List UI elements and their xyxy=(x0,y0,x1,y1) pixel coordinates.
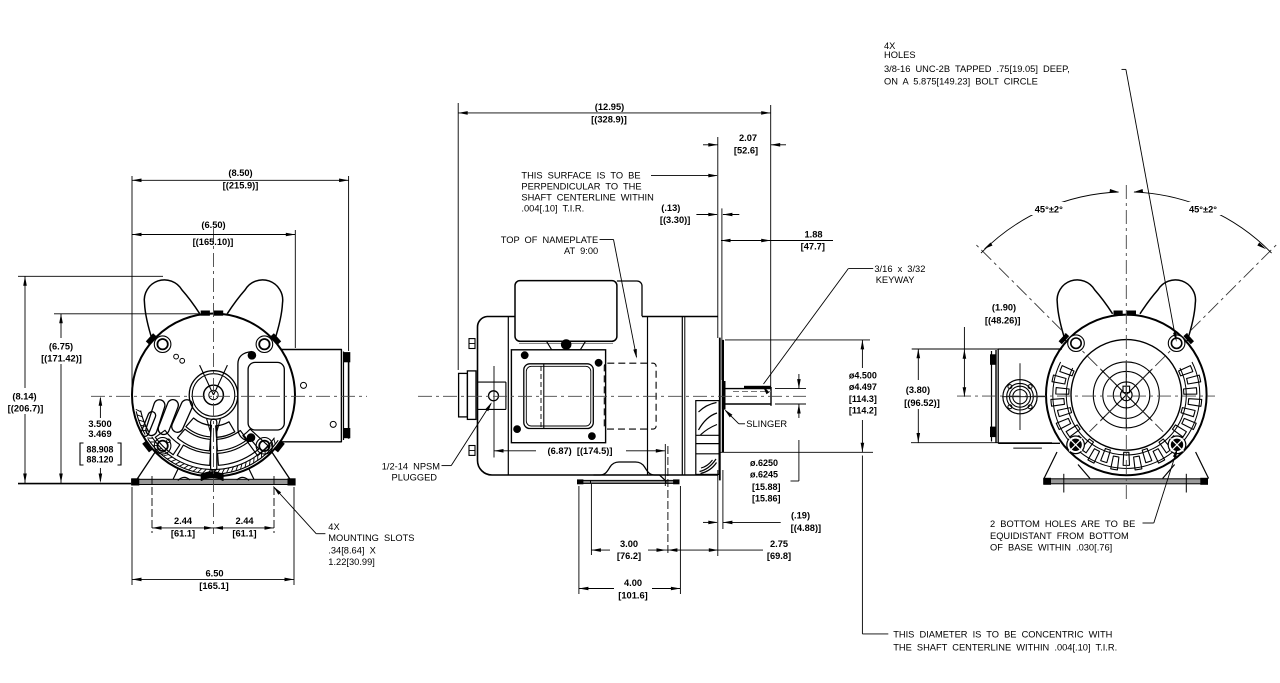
extension lines 4.00 xyxy=(578,486,580,594)
dim 2.44 right xyxy=(214,527,275,529)
svg-text:3.00: 3.00 xyxy=(620,539,638,549)
front view bolt lower-right xyxy=(256,438,273,455)
rear view conduit box lid xyxy=(991,351,993,442)
dim 1.88 xyxy=(721,240,833,242)
side view slinger xyxy=(722,382,725,410)
side view conduit box rear xyxy=(617,281,642,316)
leader THIS DIAMETER xyxy=(861,456,863,634)
svg-text:[(206.7)]: [(206.7)] xyxy=(8,404,44,414)
rear view bolt lower-left xyxy=(1067,436,1085,454)
front view conduit box holes xyxy=(301,382,307,388)
svg-text:1.88: 1.88 xyxy=(804,229,822,239)
leader 2 BOTTOM HOLES xyxy=(1143,522,1154,524)
dim (6.87) xyxy=(494,450,536,452)
svg-text:(1.90): (1.90) xyxy=(992,303,1016,313)
svg-text:[15.88]: [15.88] xyxy=(752,482,781,492)
rear view right foot xyxy=(1196,452,1209,479)
side view conduit box neck xyxy=(547,341,586,350)
leader keyway xyxy=(848,268,873,270)
svg-text:SLINGER: SLINGER xyxy=(746,419,787,429)
side view conduit box lid xyxy=(515,281,617,342)
svg-text:[(171.42)]: [(171.42)] xyxy=(41,354,82,364)
side view drain plug xyxy=(489,391,499,401)
extension lines 6.50 bottom xyxy=(131,487,133,585)
front view horizontal centerline xyxy=(91,395,367,397)
svg-text:MOUNTING SLOTS: MOUNTING SLOTS xyxy=(328,533,414,543)
svg-text:[52.6]: [52.6] xyxy=(734,146,758,156)
side view plug boss xyxy=(478,381,506,383)
svg-text:[(4.88)]: [(4.88)] xyxy=(791,523,821,533)
rear view boss centerline xyxy=(1019,363,1021,430)
rear view bolt circle diagonals xyxy=(976,245,1115,384)
side view nameplate window inner xyxy=(526,366,591,426)
extension line mounting face xyxy=(717,137,719,338)
front view conduit box side xyxy=(280,350,341,442)
svg-text:[61.1]: [61.1] xyxy=(232,528,256,538)
rear view conduit box xyxy=(998,349,1062,443)
rear view bolt upper-right xyxy=(1168,335,1185,352)
front view junction box plinth xyxy=(238,352,252,442)
front view vent arc slots xyxy=(216,422,235,438)
rear view box boss xyxy=(1003,380,1037,414)
front view top clamp tabs xyxy=(201,311,209,315)
svg-text:2 BOTTOM HOLES ARE TO BE: 2 BOTTOM HOLES ARE TO BE xyxy=(990,519,1135,529)
svg-text:(.19): (.19) xyxy=(791,511,810,521)
front view bolt upper-left xyxy=(154,336,171,353)
svg-text:4.00: 4.00 xyxy=(624,578,642,588)
side view rear foot xyxy=(594,462,666,481)
svg-text:45°±2°: 45°±2° xyxy=(1035,205,1063,215)
extension line shaft end xyxy=(770,105,772,386)
svg-text:[(215.9)]: [(215.9)] xyxy=(223,181,259,191)
side view hub flange xyxy=(467,371,476,420)
svg-text:[101.6]: [101.6] xyxy=(618,591,647,601)
svg-text:1/2-14 NPSM: 1/2-14 NPSM xyxy=(382,462,440,472)
front view right foot xyxy=(272,452,291,481)
svg-text:PLUGGED: PLUGGED xyxy=(392,473,438,483)
svg-text:KEYWAY: KEYWAY xyxy=(876,275,915,285)
svg-text:ø.6245: ø.6245 xyxy=(750,470,778,480)
leader mounting slots xyxy=(273,487,316,534)
front view left lifting ear xyxy=(144,280,200,341)
svg-text:TOP OF NAMEPLATE: TOP OF NAMEPLATE xyxy=(501,235,598,245)
svg-text:[(48.26)]: [(48.26)] xyxy=(985,316,1021,326)
front view hub key marks xyxy=(200,365,214,395)
side view frame joint xyxy=(647,317,649,476)
side view end-bell seam xyxy=(507,317,509,476)
rear view vertical centerline xyxy=(1125,185,1127,500)
front view bearing hub circles xyxy=(189,371,238,420)
dim (3.80) xyxy=(917,349,919,380)
svg-text:[114.2]: [114.2] xyxy=(849,406,877,416)
side view nameplate frame xyxy=(511,350,605,443)
dim (.19) xyxy=(703,521,717,523)
svg-text:[165.1]: [165.1] xyxy=(199,581,228,591)
svg-text:3/8-16 UNC-2B TAPPED .75[19.05: 3/8-16 UNC-2B TAPPED .75[19.05] DEEP, xyxy=(884,64,1070,74)
rear view top clamp tabs xyxy=(1114,311,1122,315)
dim shaft diameter xyxy=(798,374,800,389)
side view nameplate hinge line xyxy=(543,365,545,429)
rear view bolt lower-right xyxy=(1168,436,1186,454)
extension line box bottom xyxy=(911,442,1052,444)
svg-text:ON A 5.875[149.23] BOLT CIRCLE: ON A 5.875[149.23] BOLT CIRCLE xyxy=(884,77,1038,87)
side view louver box xyxy=(696,401,719,475)
rear view right lifting ear xyxy=(1140,280,1196,341)
svg-text:ø4.500: ø4.500 xyxy=(849,371,877,381)
rear view fan cover circle xyxy=(1071,340,1182,451)
side view louvers xyxy=(696,434,719,436)
extension line 6.50 right xyxy=(294,230,296,348)
dim 2.07 xyxy=(703,144,718,146)
side view foot base plate xyxy=(578,480,680,483)
svg-text:SHAFT CENTERLINE WITHIN: SHAFT CENTERLINE WITHIN xyxy=(521,193,653,203)
extension line box top xyxy=(912,348,1050,350)
rear view bolt upper-left xyxy=(1068,335,1085,352)
dim 3.00 and 2.75 xyxy=(591,549,610,551)
extension lines 8.50 xyxy=(131,176,133,390)
label 45 left xyxy=(1030,202,1068,215)
svg-text:[114.3]: [114.3] xyxy=(849,394,877,404)
svg-text:ø4.497: ø4.497 xyxy=(849,382,877,392)
svg-text:ø.6250: ø.6250 xyxy=(750,458,778,468)
front view bolt upper-right xyxy=(256,336,273,353)
rear view base hole marks xyxy=(1063,474,1065,493)
front view junction box window xyxy=(248,362,284,430)
svg-text:3.469: 3.469 xyxy=(88,429,111,439)
extension lines 3.00 xyxy=(590,484,592,555)
dim (6.50) xyxy=(132,234,295,236)
front view left foot xyxy=(136,452,155,481)
front view vent slats upper-left group xyxy=(140,411,157,438)
front view conduit box lid xyxy=(343,352,345,441)
side view nameplate frame screws xyxy=(521,352,528,359)
side view hidden nameplate dashed box xyxy=(604,363,656,429)
extension line slinger plane xyxy=(721,208,723,380)
svg-text:(6.75): (6.75) xyxy=(49,342,73,352)
svg-text:6.50: 6.50 xyxy=(205,569,223,579)
svg-text:[15.86]: [15.86] xyxy=(752,494,781,504)
dim (6.75) xyxy=(60,314,62,338)
extension lines shaft dia xyxy=(775,388,806,390)
svg-text:PERPENDICULAR TO THE: PERPENDICULAR TO THE xyxy=(521,182,641,192)
front view base plate xyxy=(132,479,295,484)
angular dim arc 45 xyxy=(981,192,1119,253)
front view drain holes xyxy=(174,354,179,359)
rear view left foot xyxy=(1044,452,1057,479)
extension lines 4.500 xyxy=(725,339,870,341)
svg-text:88.120: 88.120 xyxy=(87,455,114,465)
front view shaft circle xyxy=(204,385,224,405)
svg-text:2.44: 2.44 xyxy=(235,516,254,526)
svg-text:EQUIDISTANT FROM BOTTOM: EQUIDISTANT FROM BOTTOM xyxy=(990,531,1129,541)
front view junction box screws xyxy=(248,352,256,360)
svg-text:AT 9:00: AT 9:00 xyxy=(564,246,598,256)
side view fan cover band xyxy=(681,317,683,476)
front view rim vent ring xyxy=(152,437,275,470)
side view conduit box bolt xyxy=(561,340,571,350)
leader 4X HOLES xyxy=(1122,68,1126,70)
front view motor body circle xyxy=(132,314,295,477)
dim 3.500 shaft height xyxy=(99,398,101,418)
extension line 12.95 left xyxy=(457,103,459,370)
dim (8.14) xyxy=(24,276,26,388)
side view nameplate window outer xyxy=(524,364,594,429)
slot centerline dashes xyxy=(151,476,153,533)
dim 4.00 xyxy=(579,588,614,590)
svg-text:2.75: 2.75 xyxy=(770,539,788,549)
svg-text:(8.50): (8.50) xyxy=(228,168,252,178)
front view right lifting ear xyxy=(227,280,283,341)
rear view base plate xyxy=(1044,479,1208,484)
front view rib webs xyxy=(207,419,211,432)
dim 4.500 xyxy=(861,340,863,368)
rear view box underline xyxy=(1013,447,1042,449)
svg-text:.004[.10] T.I.R.: .004[.10] T.I.R. xyxy=(521,204,584,214)
front view center rib slot xyxy=(211,419,217,471)
svg-text:HOLES: HOLES xyxy=(884,50,916,60)
side view shaft centerline xyxy=(418,395,806,397)
svg-text:[(165.10)]: [(165.10)] xyxy=(193,237,234,247)
rear view motor body circle xyxy=(1046,315,1207,476)
svg-text:THIS DIAMETER IS TO BE CONCENT: THIS DIAMETER IS TO BE CONCENTRIC WITH xyxy=(893,630,1112,640)
svg-text:[(96.52)]: [(96.52)] xyxy=(904,398,940,408)
svg-text:[(3.30)]: [(3.30)] xyxy=(660,215,690,225)
leader THIS SURFACE xyxy=(651,175,717,177)
side view face bolts xyxy=(469,339,475,349)
rear view cross marks xyxy=(1101,369,1152,420)
leader TOP OF NAMEPLATE xyxy=(600,239,614,241)
ground line xyxy=(18,483,131,485)
svg-text:[69.8]: [69.8] xyxy=(767,551,791,561)
dim (8.50) xyxy=(132,179,349,181)
svg-text:(12.95): (12.95) xyxy=(595,102,624,112)
svg-text:3.500: 3.500 xyxy=(88,419,111,429)
svg-text:.34[8.64] X: .34[8.64] X xyxy=(328,545,375,555)
svg-text:2.44: 2.44 xyxy=(174,516,193,526)
front view center foot web xyxy=(201,472,223,481)
side view keyway xyxy=(744,386,770,388)
rear view horizontal centerline xyxy=(957,395,1215,397)
svg-text:2.07: 2.07 xyxy=(739,133,757,143)
svg-text:1.22[30.99]: 1.22[30.99] xyxy=(328,557,375,567)
side view bearing cap xyxy=(459,373,468,417)
side view plug centerline xyxy=(493,366,495,458)
svg-text:(.13): (.13) xyxy=(661,203,680,213)
svg-text:4X: 4X xyxy=(328,522,339,532)
svg-text:(6.87) [(174.5)]: (6.87) [(174.5)] xyxy=(547,446,612,456)
svg-text:88.908: 88.908 xyxy=(87,445,114,455)
dim 2.44 left xyxy=(152,527,214,529)
svg-text:[47.7]: [47.7] xyxy=(801,242,825,252)
side view nameplate hidden edge xyxy=(540,366,542,427)
svg-text:[(328.9)]: [(328.9)] xyxy=(591,115,627,125)
extension line face lower xyxy=(717,470,719,556)
svg-text:3/16 x 3/32: 3/16 x 3/32 xyxy=(874,264,925,274)
rear view shaft keyway notch xyxy=(1123,386,1130,392)
svg-text:THIS SURFACE IS TO BE: THIS SURFACE IS TO BE xyxy=(521,171,640,181)
svg-text:THE SHAFT CENTERLINE WITHIN .0: THE SHAFT CENTERLINE WITHIN .004[.10] T.… xyxy=(893,643,1117,653)
side view shaft xyxy=(724,388,772,390)
svg-text:[61.1]: [61.1] xyxy=(171,528,195,538)
side view C-face plate xyxy=(719,338,721,481)
svg-text:OF BASE WITHIN .030[.76]: OF BASE WITHIN .030[.76] xyxy=(990,543,1112,553)
dim 6.50 bottom xyxy=(132,578,294,580)
rear view inner circles xyxy=(1093,362,1159,428)
svg-text:(8.14): (8.14) xyxy=(12,392,36,402)
rear view louver slots xyxy=(1066,368,1186,455)
extension line 6.75 top xyxy=(54,313,199,315)
side view motor body outline xyxy=(477,317,717,476)
svg-text:[76.2]: [76.2] xyxy=(617,551,641,561)
leader NPSM plug xyxy=(442,465,452,467)
rear view left lifting ear xyxy=(1057,280,1113,341)
label 45 right xyxy=(1184,202,1222,215)
svg-text:(6.50): (6.50) xyxy=(201,220,225,230)
front view bolt lower-left xyxy=(154,438,171,455)
extension line 8.14 top xyxy=(18,275,163,277)
dim (12.95) xyxy=(458,112,771,114)
extension line 6.87 right xyxy=(664,444,666,486)
svg-text:45°±2°: 45°±2° xyxy=(1189,205,1217,215)
front view vertical centerline xyxy=(213,228,215,534)
svg-text:(3.80): (3.80) xyxy=(906,385,930,395)
foot hole centerline xyxy=(667,446,669,556)
